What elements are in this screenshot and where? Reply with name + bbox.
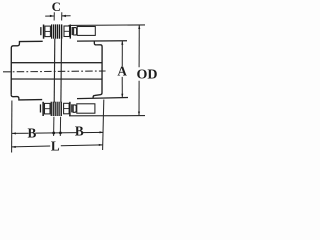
junction dot left	[52, 132, 55, 135]
junction dot right	[59, 131, 62, 134]
svg-text:B: B	[28, 125, 37, 140]
bore bottom line	[11, 78, 102, 80]
washer left (bottom)	[40, 104, 41, 112]
link plate L1	[43, 25, 45, 39]
flange hatch bar 2	[53, 24, 54, 38]
flange hatch bar 5	[59, 24, 60, 38]
flange hatch bar 6	[61, 24, 62, 38]
flange hatch bar 4	[57, 24, 58, 38]
centerline	[3, 70, 106, 73]
nut right	[64, 26, 70, 37]
svg-text:B: B	[75, 124, 84, 139]
flange hatch bar 1 (bottom)	[51, 102, 52, 116]
svg-text:OD: OD	[137, 67, 158, 82]
body outline left half top	[11, 41, 43, 94]
link plate R2 (bottom)	[69, 102, 70, 116]
C extension line left	[53, 12, 55, 20]
OD bottom extension line	[69, 115, 145, 117]
bolt end cap	[74, 28, 77, 35]
svg-text:A: A	[117, 63, 127, 78]
C arrow right	[62, 15, 71, 17]
flange face vertical left	[53, 39, 56, 103]
washer right (bottom)	[71, 104, 72, 112]
svg-text:L: L	[51, 138, 60, 153]
OD top extension line	[69, 24, 146, 27]
body bottom right + A bottom extension	[77, 98, 128, 99]
center extension line left	[53, 117, 55, 136]
C extension line right	[61, 12, 63, 20]
bolt head left	[45, 26, 51, 36]
body right step top, shoulder, right edge, shoulder bottom, step	[93, 41, 102, 98]
flange hatch bar 1	[51, 24, 52, 38]
link plate R2	[70, 25, 71, 39]
C arrow left	[45, 15, 54, 17]
left extension line	[11, 101, 13, 153]
bottom long housing rect	[77, 104, 95, 113]
bore top line	[11, 62, 102, 64]
flange hatch bar 6 (bottom)	[61, 102, 62, 116]
svg-text:C: C	[52, 0, 61, 14]
top long housing rect	[77, 27, 95, 36]
nut right (bottom)	[64, 103, 70, 114]
body outline left half bottom	[11, 95, 42, 100]
flange hatch bar 3	[55, 24, 56, 38]
right extension line	[103, 100, 104, 151]
link plate L1 (bottom)	[42, 102, 44, 116]
flange face vertical right	[60, 39, 63, 103]
flange hatch bar 5 (bottom)	[58, 102, 59, 116]
center extension line right	[59, 117, 61, 136]
body top right + A top extension	[77, 40, 127, 42]
flange hatch bar 3 (bottom)	[55, 102, 56, 116]
flange hatch bar 2 (bottom)	[53, 102, 54, 116]
bolt head left (bottom)	[45, 103, 51, 114]
bolt end cap (bottom)	[73, 105, 76, 112]
washer left	[40, 27, 41, 35]
washer right	[72, 27, 73, 35]
flange hatch bar 4 (bottom)	[57, 102, 58, 116]
